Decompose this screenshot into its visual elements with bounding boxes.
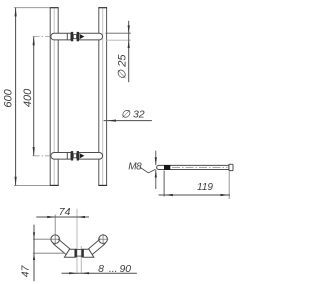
svg-text:74: 74 [59,206,71,218]
dimension 47 arrow top [33,232,35,239]
dimension 400 arrow bottom [33,147,35,156]
hub flange left [75,249,77,258]
dimension 600 arrow bottom [15,177,17,186]
extension line bottom (600) [14,184,50,186]
dimension 47 line [33,225,35,282]
standoff left cylinder [51,33,71,40]
standoff neck [73,35,76,39]
svg-text:∅ 32: ∅ 32 [121,109,145,121]
svg-text:...: ... [109,263,118,275]
dimension 400 line [33,37,35,156]
svg-text:90: 90 [119,263,131,275]
stud diameter lower arrow [155,170,157,189]
door left face line [76,209,78,274]
right arm [88,239,105,255]
svg-text:400: 400 [22,88,34,107]
dimension 119 arrow right [221,194,230,196]
dimension 119 line [159,194,231,196]
stud end cap [229,164,233,170]
centerline top standoff [33,36,104,38]
right tube (handle bar, side view) [99,8,107,186]
right handle circle [99,235,108,244]
door right face line [80,246,82,274]
svg-text:47: 47 [19,264,31,277]
dimension 74 arrow right [77,216,85,218]
dimension 47 extension top [33,252,65,254]
right handle circle center marks [98,238,109,240]
top standoff assembly [51,32,103,41]
sleeve through door [77,248,82,250]
dimension 8...90 line [62,272,137,274]
dimension 74 line [36,216,89,218]
extension lines diameter 25 [106,32,131,34]
extension line 119 left [163,171,165,197]
hub flange right [81,249,83,258]
dimension d25 arrow lower [128,40,130,48]
svg-text:8: 8 [98,263,104,275]
dimension 74 arrow left [47,216,55,218]
standoff screw cone [80,34,85,39]
tube end caps [50,8,107,186]
standoff flange left [71,32,73,41]
left handle circle [51,235,60,244]
dimension 600 arrow top [15,8,17,17]
dimension d25 line [128,21,130,82]
dimension 47 arrow bottom [33,253,35,260]
standoff flange right [77,32,79,41]
svg-text:119: 119 [197,182,213,193]
dimension 119 arrow left [164,194,173,196]
extension line 119 right [228,171,230,199]
dimension 600 line [15,8,17,186]
dimension 400 arrow top [33,37,35,46]
svg-text:600: 600 [3,88,15,107]
stud thread black band [164,165,170,170]
svg-text:∅ 25: ∅ 25 [117,54,129,80]
dimension d25 arrow upper [128,25,130,33]
standoff cylinder joint line [66,33,68,40]
stud centerline [172,166,228,168]
M8 leader line [140,167,156,173]
extension line top (600) [14,7,50,9]
centerline bottom standoff [33,155,104,157]
standoff right cylinder [79,33,103,40]
bottom standoff assembly [51,151,103,160]
left arm [53,239,70,255]
left clamp block [64,249,75,257]
dimension 8...90 arrow left [69,272,77,274]
right clamp block [83,249,94,257]
left tube (handle bar, side view) [50,8,58,186]
dimension 8...90 arrow right [81,272,89,274]
leader d32 arrow [107,120,116,122]
stud shaft outline [157,165,229,169]
left handle circle center marks [33,238,60,240]
stud diameter upper arrow [155,151,157,166]
leader line diameter 32 [104,120,152,122]
